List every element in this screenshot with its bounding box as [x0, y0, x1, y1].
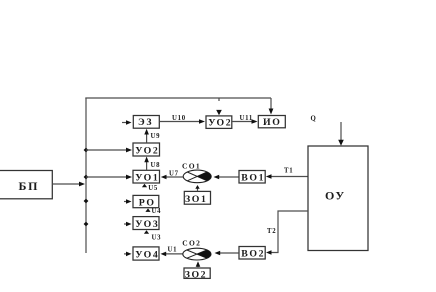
svg-text:ЗО2: ЗО2 [185, 269, 208, 280]
wire: ВО2 to СО2 [220, 252, 239, 254]
wire: short arrow into УО4 [124, 253, 127, 255]
wire: drop into ИО [270, 98, 272, 110]
block УО3 [133, 217, 159, 230]
wire: short arrow into ЭЗ [122, 122, 126, 124]
svg-text:U1: U1 [168, 247, 178, 254]
wire: top feedback line [85, 97, 271, 99]
svg-text:СО2: СО2 [182, 238, 201, 247]
wire: Q arrow into ОУ top [340, 122, 342, 141]
wire: U7 arrow СО1 to УО1 [166, 176, 183, 178]
block УО1 [133, 170, 160, 183]
svg-text:U3: U3 [152, 234, 162, 241]
block БП [0, 171, 52, 199]
svg-text:ВО1: ВО1 [241, 173, 265, 184]
wire: bus to УО1 [86, 176, 127, 178]
svg-text:Т2: Т2 [267, 228, 276, 235]
svg-text:U7: U7 [169, 171, 179, 178]
wire: bus to УО2 (left stack) [86, 149, 127, 151]
block ВО1 [239, 171, 265, 184]
svg-text:U10: U10 [172, 115, 186, 122]
svg-text:УО2: УО2 [135, 146, 159, 157]
wire: Т1 from ОУ to ВО1 [271, 176, 308, 178]
svg-text:СО1: СО1 [182, 162, 201, 171]
svg-text:УО1: УО1 [135, 173, 159, 184]
svg-text:U4: U4 [152, 208, 162, 215]
block УО2 (left stack) [133, 143, 160, 156]
svg-text:Т1: Т1 [284, 168, 293, 175]
svg-text:РО: РО [139, 198, 156, 209]
svg-text:U11: U11 [240, 115, 253, 122]
node: junction on bus (РО row) [84, 199, 89, 204]
wire: Т2 from ОУ to ВО2 [271, 211, 308, 253]
wire: УО2 to ИО, signal U11 [232, 121, 252, 123]
node: junction on bus (УО2 row) [84, 148, 89, 153]
node: junction on bus (УО1 row) [84, 175, 89, 180]
block УО4 [133, 247, 159, 260]
wire: ВО1 to СО1 [219, 176, 239, 178]
svg-text:ЗО1: ЗО1 [185, 194, 208, 205]
svg-text:ИО: ИО [263, 117, 281, 128]
wire: short arrow into УО3 [124, 223, 127, 225]
block ЭЗ [133, 116, 159, 129]
wire: U1 arrow СО2 to УО4 [166, 253, 184, 255]
wire: U9 arrow УО2 up to ЭЗ [146, 134, 148, 143]
svg-text:ОУ: ОУ [325, 189, 346, 203]
wire: left vertical bus [85, 98, 87, 253]
svg-text:Q: Q [311, 116, 317, 123]
wire: ЗО2 up to СО2 [197, 266, 199, 267]
block ВО2 [239, 247, 265, 260]
block ЗО1 [184, 191, 210, 204]
wire: БП to bus [52, 183, 79, 185]
wire: U3 short arrow into УО3 bottom [144, 230, 149, 234]
svg-text:УО3: УО3 [135, 219, 159, 230]
svg-text:БП: БП [19, 179, 40, 193]
wire: U8 arrow УО1 up to УО2 [146, 162, 148, 170]
svg-text:ЭЗ: ЭЗ [138, 117, 153, 128]
wire: U4 short arrow into РО bottom [145, 208, 150, 212]
node: junction on bus (УО3 row) [84, 222, 89, 227]
block ОУ [308, 146, 368, 251]
node: tick on top line above УО2 [218, 98, 220, 101]
block РО [133, 195, 159, 207]
svg-text:УО4: УО4 [135, 250, 159, 261]
block УО2 (top row) [206, 116, 232, 128]
block ИО [258, 116, 285, 128]
wire: U5 short arrow into УО1 bottom [142, 184, 147, 188]
wire: arrow down into УО2 top [216, 110, 222, 115]
svg-text:ВО2: ВО2 [241, 249, 265, 260]
svg-text:УО2: УО2 [208, 117, 232, 128]
svg-text:U8: U8 [151, 162, 161, 169]
wire: ЗО1 up to СО1 [197, 188, 199, 191]
wire: short arrow into РО [124, 201, 127, 203]
wire: ЭЗ to УО2 (top row), signal U10 [160, 121, 200, 123]
svg-text:U5: U5 [148, 185, 158, 192]
block ЗО2 [184, 268, 210, 278]
svg-text:U9: U9 [151, 133, 161, 140]
